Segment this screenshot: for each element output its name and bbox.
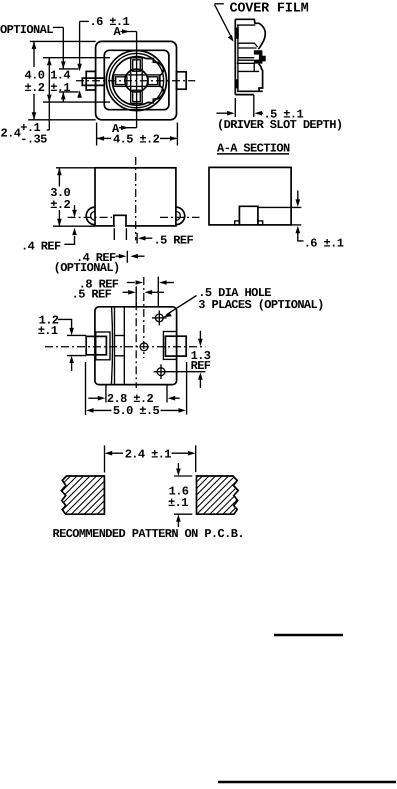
1.6 dim: [174, 475, 192, 477]
stray line 2: [218, 781, 396, 784]
rotor cam: [112, 57, 163, 106]
ext line body bottom: [28, 119, 95, 121]
3.0 dim: [58, 168, 60, 187]
section line A-A: [136, 32, 138, 128]
foot centerlines: [68, 216, 112, 218]
svg-text:.6 ±.1: .6 ±.1: [304, 237, 344, 251]
body: [95, 307, 177, 385]
dim 4.0 line: [33, 41, 35, 67]
center hole: [140, 343, 148, 351]
centerline horizontal: [76, 80, 195, 82]
.6 dim bracket: [80, 20, 89, 22]
right lower outline: [259, 64, 263, 92]
2.4 dim: [104, 445, 106, 472]
.5 dim ext lines: [234, 98, 236, 117]
inner left wall: [237, 25, 239, 91]
svg-text:(OPTIONAL): (OPTIONAL): [54, 261, 120, 275]
rotor ring: [109, 53, 163, 107]
svg-text:±.2: ±.2: [50, 198, 70, 212]
stub ext lines: [113, 228, 115, 240]
right pad: [165, 336, 186, 356]
svg-text:.5 REF: .5 REF: [72, 287, 112, 301]
center stub: [115, 225, 125, 228]
stray line 1: [274, 634, 343, 637]
left pad: [86, 336, 106, 354]
right foot: [176, 207, 185, 225]
bottom-right hole: [157, 368, 165, 376]
centerline horizontal: [45, 346, 205, 348]
dim 2.4 line: [48, 58, 50, 130]
5.0 dim: [85, 362, 87, 415]
svg-text:2.4: 2.4: [1, 127, 21, 141]
svg-text:5.0 ±.5: 5.0 ±.5: [113, 404, 160, 418]
hatch left: [20, 470, 155, 520]
centerline vertical (rotor axis): [143, 277, 145, 358]
grooves: [111, 307, 112, 385]
bottom edges: [237, 90, 263, 92]
cross slot vertical arm: [131, 58, 143, 104]
svg-text:±.1: ±.1: [50, 81, 70, 95]
body: [209, 167, 291, 225]
left wall: [234, 19, 236, 94]
feet notches: [235, 221, 240, 225]
inner horizontals: [237, 24, 256, 26]
4.5 dim: [96, 123, 98, 146]
svg-text:(DRIVER SLOT DEPTH): (DRIVER SLOT DEPTH): [217, 118, 342, 132]
svg-text:±.1: ±.1: [168, 496, 188, 510]
left pad outline: [61, 476, 104, 514]
svg-text:RECOMMENDED PATTERN ON P.C.B.: RECOMMENDED PATTERN ON P.C.B.: [53, 527, 244, 541]
svg-text:REF: REF: [191, 359, 211, 373]
svg-text:2.4 ±.1: 2.4 ±.1: [125, 447, 172, 461]
body outline: [96, 41, 177, 119]
stator lines (2.4 square): [43, 57, 110, 59]
film black bars: [236, 28, 239, 39]
.6 dim arrows: [297, 191, 299, 201]
groove crossbars: [115, 335, 125, 337]
.5 dim arrows: [216, 112, 228, 114]
svg-text:4.5 ±.2: 4.5 ±.2: [113, 132, 160, 146]
svg-text:3 PLACES (OPTIONAL): 3 PLACES (OPTIONAL): [198, 298, 323, 312]
ext line body top: [30, 40, 96, 42]
1.4 ext lines: [59, 68, 79, 70]
slot black cluster: [254, 50, 266, 63]
left tab: [86, 71, 95, 90]
leader: [215, 5, 232, 38]
centerline vertical (body): [135, 286, 137, 388]
svg-text:.6 ±.1: .6 ±.1: [90, 15, 130, 29]
cross inner stubs: [133, 60, 141, 71]
svg-text:OPTIONAL: OPTIONAL: [0, 23, 53, 37]
ext of body bottom: [291, 224, 301, 226]
top-right hole: [155, 314, 163, 322]
svg-text:-.35: -.35: [20, 133, 47, 147]
right tab: [177, 72, 187, 89]
stub: [239, 206, 258, 225]
svg-text:COVER FILM: COVER FILM: [230, 2, 309, 17]
svg-text:±.2: ±.2: [25, 81, 45, 95]
svg-text:.4 REF: .4 REF: [21, 239, 61, 253]
inner right verticals: [253, 63, 255, 71]
cover film square: [104, 50, 169, 109]
.5 REF: [136, 233, 138, 244]
svg-text:.5 REF: .5 REF: [154, 233, 194, 247]
left terminal strip: [82, 78, 104, 85]
dim 1.4 arrows + OPTIONAL leader: [62, 27, 64, 69]
3.0 ext lines: [56, 167, 95, 169]
left foot: [86, 207, 95, 225]
leader from stub top: [258, 206, 301, 208]
driver circle: [125, 69, 148, 92]
right pad outline: [197, 476, 239, 514]
body: [95, 168, 176, 226]
section outline: [235, 19, 265, 49]
svg-text:±.1: ±.1: [38, 324, 58, 338]
centerline: [135, 157, 137, 240]
cross slot horizontal arm: [114, 75, 160, 87]
rotor outer circle: [106, 51, 166, 111]
2.8 dim: [105, 385, 107, 402]
hatch right: [152, 470, 287, 520]
